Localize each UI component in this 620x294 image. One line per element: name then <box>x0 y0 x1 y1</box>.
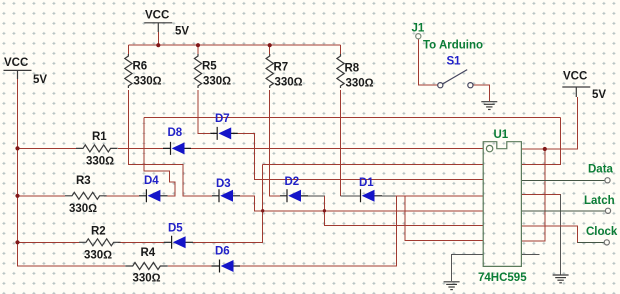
wire Clock line chip segment <box>521 226 578 243</box>
resistor R7 <box>266 54 273 88</box>
svg-text:330Ω: 330Ω <box>346 78 374 90</box>
wire R7 column upper <box>269 45 271 54</box>
svg-text:R6: R6 <box>133 61 148 73</box>
pin 1 marker circle U1 <box>486 145 492 151</box>
svg-text:R7: R7 <box>274 62 289 74</box>
diode D7 <box>210 127 238 140</box>
ground at right OE pin <box>553 275 569 283</box>
svg-text:330Ω: 330Ω <box>84 250 112 262</box>
wire R5 column upper <box>197 45 199 54</box>
ground at U1 left GND pin <box>444 282 460 290</box>
resistor R6 <box>125 54 132 88</box>
wire ground vertical right <box>560 194 562 274</box>
junction dot D2 jog <box>323 209 326 212</box>
junction dot R3 row <box>15 194 19 198</box>
junction dot VCC pin16 <box>543 147 547 151</box>
svg-text:330Ω: 330Ω <box>69 203 97 215</box>
svg-text:R5: R5 <box>202 61 217 73</box>
svg-text:330Ω: 330Ω <box>275 77 303 89</box>
wire D3 anode jog <box>240 196 483 212</box>
wire R4 row left <box>18 265 126 267</box>
junction dot top VCC <box>156 43 160 47</box>
svg-text:330Ω: 330Ω <box>203 76 231 88</box>
terminal Clock <box>604 240 609 245</box>
resistor R5 <box>194 54 201 88</box>
wire R6 column lower <box>128 90 212 196</box>
svg-text:R3: R3 <box>76 175 91 187</box>
svg-text:5V: 5V <box>592 89 606 101</box>
wire J1 to switch <box>418 39 437 86</box>
wire VCC top bus <box>128 44 340 46</box>
wire D2 anode to pin6 jog <box>301 195 325 197</box>
wire R7 column to D2 <box>270 90 280 196</box>
power symbol VCC right <box>562 87 590 97</box>
svg-text:D7: D7 <box>215 113 230 125</box>
diode D5 <box>164 236 193 249</box>
power symbol VCC top <box>144 23 172 32</box>
resistor R2 <box>79 239 121 246</box>
svg-text:Clock: Clock <box>586 226 618 238</box>
wire R4 to D6 <box>168 265 212 267</box>
wire D5 to long vertical <box>193 164 263 243</box>
diode D1 <box>361 189 383 202</box>
svg-text:VCC: VCC <box>4 57 28 69</box>
resistor R3 <box>65 192 107 199</box>
svg-text:D6: D6 <box>215 246 230 258</box>
wire pin5 jog vertical <box>405 196 483 241</box>
wire R2 row <box>18 241 80 243</box>
wire R3 row <box>18 195 66 197</box>
wire pin9 stub <box>521 254 539 256</box>
wire pin2 row <box>263 163 484 165</box>
wire Clock line terminal segment <box>578 241 605 243</box>
wire left VCC vertical <box>17 79 19 267</box>
terminal Data <box>605 178 610 183</box>
wire R8 column upper <box>340 45 342 54</box>
diode D3 <box>212 189 240 202</box>
svg-text:330Ω: 330Ω <box>86 156 114 168</box>
svg-text:D1: D1 <box>359 177 374 189</box>
svg-text:S1: S1 <box>447 56 462 68</box>
wire Latch line <box>521 210 605 212</box>
resistor R8 <box>337 54 344 88</box>
svg-text:VCC: VCC <box>145 10 169 22</box>
wire D8 to chip pin1 <box>191 147 483 149</box>
wire top VCC stub <box>157 32 159 45</box>
diode D4 <box>139 189 168 202</box>
svg-text:R2: R2 <box>91 226 106 238</box>
wire R8 corner to D1 <box>341 195 361 197</box>
diode D6 <box>212 260 241 273</box>
terminal Latch <box>605 208 610 213</box>
svg-text:Latch: Latch <box>584 195 615 207</box>
wire Data line <box>521 179 604 181</box>
svg-text:R1: R1 <box>92 131 107 143</box>
wire R8 column to diode row <box>340 90 342 196</box>
op-amp U1 74HC595 body <box>483 142 521 267</box>
connector J1 terminal <box>416 34 421 39</box>
resistor R1 <box>76 145 118 152</box>
diode D8 <box>163 142 191 155</box>
wire OE to ground <box>521 193 561 195</box>
svg-text:5V: 5V <box>33 74 47 86</box>
junction dot R2 row <box>15 240 19 244</box>
junction dot R7 top <box>268 43 272 47</box>
svg-text:U1: U1 <box>494 129 509 141</box>
wire GND pin to ground left <box>451 255 483 281</box>
svg-text:R4: R4 <box>141 247 156 259</box>
wire R1 row left <box>18 147 77 149</box>
junction dot R5 top <box>196 43 200 47</box>
wire R6 column upper <box>127 45 129 54</box>
svg-text:To Arduino: To Arduino <box>423 40 483 52</box>
svg-text:330Ω: 330Ω <box>133 273 161 285</box>
junction dot D3 jog <box>261 209 264 212</box>
diode D2 <box>280 189 308 202</box>
junction dot R1 row <box>15 146 19 150</box>
svg-text:D2: D2 <box>285 176 300 188</box>
svg-text:74HC595: 74HC595 <box>478 272 527 284</box>
wire QA row <box>144 117 561 165</box>
wire D1 anode to chip pin4 <box>382 195 396 197</box>
wire R5 to D7 <box>198 90 211 134</box>
wire R2 to D5 <box>118 241 164 243</box>
wire D7 to pin3 row <box>238 133 484 180</box>
switch S1 <box>438 70 473 88</box>
svg-text:Data: Data <box>588 164 614 176</box>
svg-text:D4: D4 <box>144 175 159 187</box>
power symbol VCC left <box>4 70 32 79</box>
wire chip pin16 VCC <box>521 97 578 150</box>
svg-text:VCC: VCC <box>563 71 587 83</box>
wire switch to ground <box>473 85 490 101</box>
wire R3 to D4 <box>104 195 139 197</box>
svg-text:D5: D5 <box>168 223 183 235</box>
svg-text:D3: D3 <box>216 178 231 190</box>
svg-text:5V: 5V <box>175 26 189 38</box>
wire D4 anode <box>168 195 176 197</box>
svg-text:R8: R8 <box>345 63 360 75</box>
resistor R4 <box>125 263 168 270</box>
svg-text:D8: D8 <box>168 127 183 139</box>
svg-text:J1: J1 <box>412 23 425 35</box>
wire R1 to D8 <box>118 147 163 149</box>
svg-text:330Ω: 330Ω <box>134 76 162 88</box>
wire VCC to SRCLR vertical <box>521 149 544 241</box>
wire D1 branch to D6 row <box>240 196 397 267</box>
ground at switch S1 <box>481 102 497 110</box>
wire QA to D4 staircase <box>144 117 176 196</box>
